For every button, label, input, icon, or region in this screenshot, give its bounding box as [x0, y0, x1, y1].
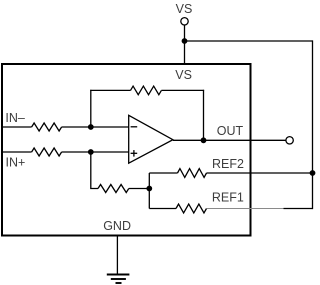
node OUT junction [201, 137, 207, 143]
resistor REF2 [178, 169, 207, 178]
svg-text:VS: VS [175, 68, 192, 82]
resistor on IN+ line [32, 148, 62, 156]
node ref divider junction [146, 186, 152, 192]
ground [107, 275, 130, 284]
wire IN+ node to op-amp plus input [62, 151, 129, 153]
resistor from IN+ node to ref divider [98, 185, 129, 193]
wire feedback up from IN- node [90, 90, 92, 127]
svg-text:IN+: IN+ [6, 156, 26, 170]
wire op-amp output to OUT terminal [173, 139, 286, 141]
resistor REF1 [176, 204, 207, 213]
op-amp U1 [129, 115, 173, 163]
wire feedback top left [90, 89, 130, 91]
wire GND from box bottom [116, 236, 118, 275]
wire ref divider vertical [148, 173, 150, 209]
resistor on IN- line [32, 123, 62, 131]
svg-text:GND: GND [103, 219, 131, 233]
wire to ref divider node [129, 188, 150, 190]
svg-text:REF1: REF1 [212, 191, 244, 205]
wire VS junction to right rail [185, 40, 313, 42]
wire right rail vertical [312, 40, 314, 209]
op-amp minus sign [131, 126, 138, 128]
svg-text:VS: VS [176, 2, 193, 16]
VS terminal [181, 18, 188, 25]
node right rail junction [310, 170, 316, 176]
IN- input wire [3, 126, 32, 128]
node IN+ junction [88, 149, 94, 155]
wire to REF2 resistor [149, 172, 177, 174]
wire IN- node to op-amp minus input [62, 126, 129, 128]
wire to REF1 resistor [149, 208, 176, 210]
feedback resistor [131, 86, 162, 95]
IN+ input wire [3, 151, 32, 153]
svg-text:OUT: OUT [217, 124, 244, 138]
svg-text:IN–: IN– [5, 111, 25, 125]
node VS junction [182, 38, 188, 44]
op-amp plus sign [131, 152, 138, 154]
wire REF1 to right rail [284, 208, 313, 210]
svg-text:REF2: REF2 [212, 157, 244, 171]
OUT terminal [286, 137, 293, 144]
node IN- junction [88, 124, 94, 130]
wire REF1 to right rail (light segment) [207, 208, 284, 210]
wire VS vertical into box [184, 25, 186, 63]
wire IN+ node down [91, 152, 98, 189]
wire feedback top right [161, 89, 204, 91]
wire feedback down to output node [203, 90, 205, 141]
IC box [2, 64, 251, 236]
wire REF2 to right rail [207, 172, 313, 174]
